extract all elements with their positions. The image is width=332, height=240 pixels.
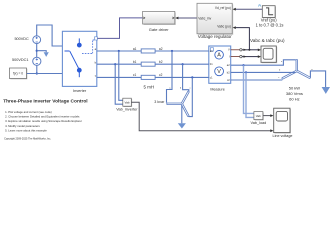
svg-text:Vabc & Iabc (pu): Vabc & Iabc (pu): [250, 38, 285, 43]
svg-text:V: V: [228, 48, 230, 52]
wire V to scope: [242, 49, 258, 51]
wire tap b down: [115, 64, 122, 104]
node tap a Vab_inverter: [118, 50, 120, 52]
ground left: [44, 52, 49, 57]
wire between sources: [36, 44, 38, 58]
scope Vabc & Iabc: [250, 38, 285, 63]
ground load: [322, 87, 330, 94]
svg-text:c: c: [278, 77, 280, 79]
arrow into gate driver: [175, 17, 178, 20]
svg-text:a: a: [281, 61, 283, 63]
wire I to scope: [242, 56, 258, 58]
wire Vab_load tap b: [246, 72, 254, 117]
svg-text:b1: b1: [133, 60, 137, 64]
inverter block U1: [62, 31, 96, 93]
measure port labels: [210, 48, 230, 82]
measure block: [209, 46, 231, 91]
node tap c 3kvar: [191, 76, 193, 78]
wire 3kvar tap c: [189, 77, 193, 116]
wire Vab_inverter to scope: [132, 102, 271, 131]
list annotation: [5, 110, 82, 132]
wire measure V output stub: [231, 49, 240, 51]
svg-text:V: V: [217, 69, 221, 75]
dc source 500VDC1: [33, 57, 41, 65]
svg-text:Vabc_inv: Vabc_inv: [198, 17, 211, 21]
svg-text:5 mH: 5 mH: [144, 84, 155, 89]
svg-text:500VDC1: 500VDC1: [12, 58, 28, 62]
node tap b 3kvar: [182, 63, 184, 65]
node bottom junction: [36, 72, 38, 74]
wire Vref to regulator: [236, 8, 263, 10]
node tap a Vab_load: [242, 64, 244, 66]
wire 3kvar tap a: [167, 51, 173, 103]
node inverter - port: [62, 73, 64, 75]
phase rail c: [97, 76, 209, 78]
wire dc- rail: [27, 73, 63, 75]
gate port square g: [95, 37, 98, 40]
gate dashed line: [82, 40, 94, 53]
rail b2 to load: [231, 71, 296, 73]
node inverter + port: [62, 45, 64, 47]
gate driver block: [143, 11, 176, 32]
logging badge: [258, 5, 261, 7]
wire dc+ to inverter: [37, 25, 63, 46]
ground 3kvar: [178, 123, 186, 128]
arrow into line voltage scope lower: [270, 129, 273, 132]
wire Vab_load tap a: [244, 65, 254, 113]
node tap a 3kvar: [171, 50, 173, 52]
inductor Lc 5mH: [141, 75, 155, 79]
svg-text:Copyright 2009-2025 The MathWo: Copyright 2009-2025 The MathWorks, Inc.: [4, 138, 51, 141]
arrow into regulator Vd_ref: [233, 8, 236, 11]
load text: [286, 86, 303, 102]
svg-text:a2: a2: [159, 47, 163, 51]
arrow into line voltage scope upper: [270, 114, 273, 117]
wire 3kvar tap b: [183, 64, 189, 91]
wire load neutral to ground: [310, 71, 325, 87]
arrow into scope I: [258, 55, 261, 58]
arrow into regulator Vabc: [233, 26, 236, 29]
svg-text:2. Choose between Detailed and: 2. Choose between Detailed and Equivalen…: [5, 115, 80, 119]
rail a2 to load: [231, 60, 296, 65]
svg-text:4. Modify model parameters: 4. Modify model parameters: [5, 124, 40, 128]
wire 3kvar neutral to ground: [181, 105, 183, 123]
svg-text:Vab: Vab: [256, 114, 261, 118]
svg-text:Vab_inverter: Vab_inverter: [116, 108, 138, 112]
dc source 500VDC: [33, 36, 41, 44]
svg-text:3. Explore simulation results: 3. Explore simulation results using Sims…: [5, 119, 82, 123]
svg-text:3 kvar: 3 kvar: [154, 100, 165, 104]
converter circle V: [240, 49, 242, 51]
svg-text:Vd_ref (pu): Vd_ref (pu): [215, 6, 231, 10]
node tap b Vab_inverter: [114, 63, 116, 65]
wire to ground: [37, 51, 47, 53]
wire riser V to regulator: [236, 28, 250, 50]
svg-text:c1: c1: [133, 73, 137, 77]
phase rail a: [97, 50, 209, 52]
svg-text:Vab_load: Vab_load: [251, 121, 267, 125]
three-phase load icon: [282, 60, 311, 80]
svg-text:Inverter: Inverter: [73, 88, 87, 93]
port labels a b c: [95, 47, 97, 77]
svg-text:Measure: Measure: [210, 87, 224, 91]
solver config f(x)=0: [10, 68, 28, 79]
voltage regulator block: [197, 3, 233, 39]
svg-text:50 kW: 50 kW: [289, 86, 301, 91]
svg-text:a1: a1: [133, 47, 137, 51]
svg-text:b: b: [180, 88, 182, 90]
svg-text:Voltage regulator: Voltage regulator: [198, 34, 233, 39]
svg-text:Vab: Vab: [124, 101, 129, 105]
ammeter icon A: [215, 51, 224, 60]
svg-text:5. Learn more about this examp: 5. Learn more about this example: [5, 128, 47, 132]
svg-text:b: b: [279, 70, 281, 72]
arrow mid I: [244, 55, 247, 57]
svg-text:A: A: [217, 53, 221, 59]
wire regulator to gate driver: [178, 17, 197, 19]
arrow into scope V: [258, 49, 261, 52]
svg-text:500VDC: 500VDC: [14, 37, 29, 41]
svg-text:1 to 0.7 @ 0.1s: 1 to 0.7 @ 0.1s: [256, 23, 284, 28]
phase rail b: [97, 63, 209, 65]
capacitor bank 3kvar icon: [167, 91, 190, 117]
svg-text:f(x) = 0: f(x) = 0: [13, 72, 23, 76]
wire Vab_load to scope: [263, 115, 271, 117]
node mid junction: [36, 50, 38, 52]
gate wire (purple): [98, 18, 143, 39]
node tap b Vab_load: [245, 71, 247, 73]
3kvar terminal labels: [169, 88, 191, 90]
svg-text:b2: b2: [159, 60, 163, 64]
wire dc-: [36, 65, 38, 73]
wire measure I output stub: [231, 56, 240, 58]
arrow mid V: [244, 49, 247, 51]
Vref step source block: [256, 6, 284, 28]
inductor terminal labels: [133, 47, 163, 77]
svg-text:Line voltage: Line voltage: [273, 134, 293, 138]
rail c2 to load: [231, 79, 283, 81]
voltmeter icon V: [215, 67, 224, 76]
Vab_inverter measurement block: [116, 98, 138, 112]
svg-text:Gate driver: Gate driver: [149, 27, 169, 32]
line voltage scope: [273, 108, 293, 138]
inductor Lb 5mH: [141, 62, 155, 66]
wire tap a down: [119, 51, 123, 100]
svg-text:Three-Phase Inverter Voltage C: Three-Phase Inverter Voltage Control: [3, 99, 87, 105]
svg-text:c: c: [190, 88, 192, 90]
load terminal labels: [278, 61, 313, 79]
svg-text:60 Hz: 60 Hz: [289, 96, 299, 101]
node V junction: [248, 49, 250, 51]
converter circle I: [240, 55, 242, 57]
switch symbol inside inverter: [65, 38, 82, 77]
Vab_load measurement block: [251, 112, 267, 126]
svg-text:1. Plot voltage and current (s: 1. Plot voltage and current (see code): [5, 110, 52, 114]
inductor La 5mH: [141, 49, 155, 53]
svg-text:c2: c2: [159, 73, 163, 77]
svg-text:Vabc (pu): Vabc (pu): [217, 25, 231, 29]
